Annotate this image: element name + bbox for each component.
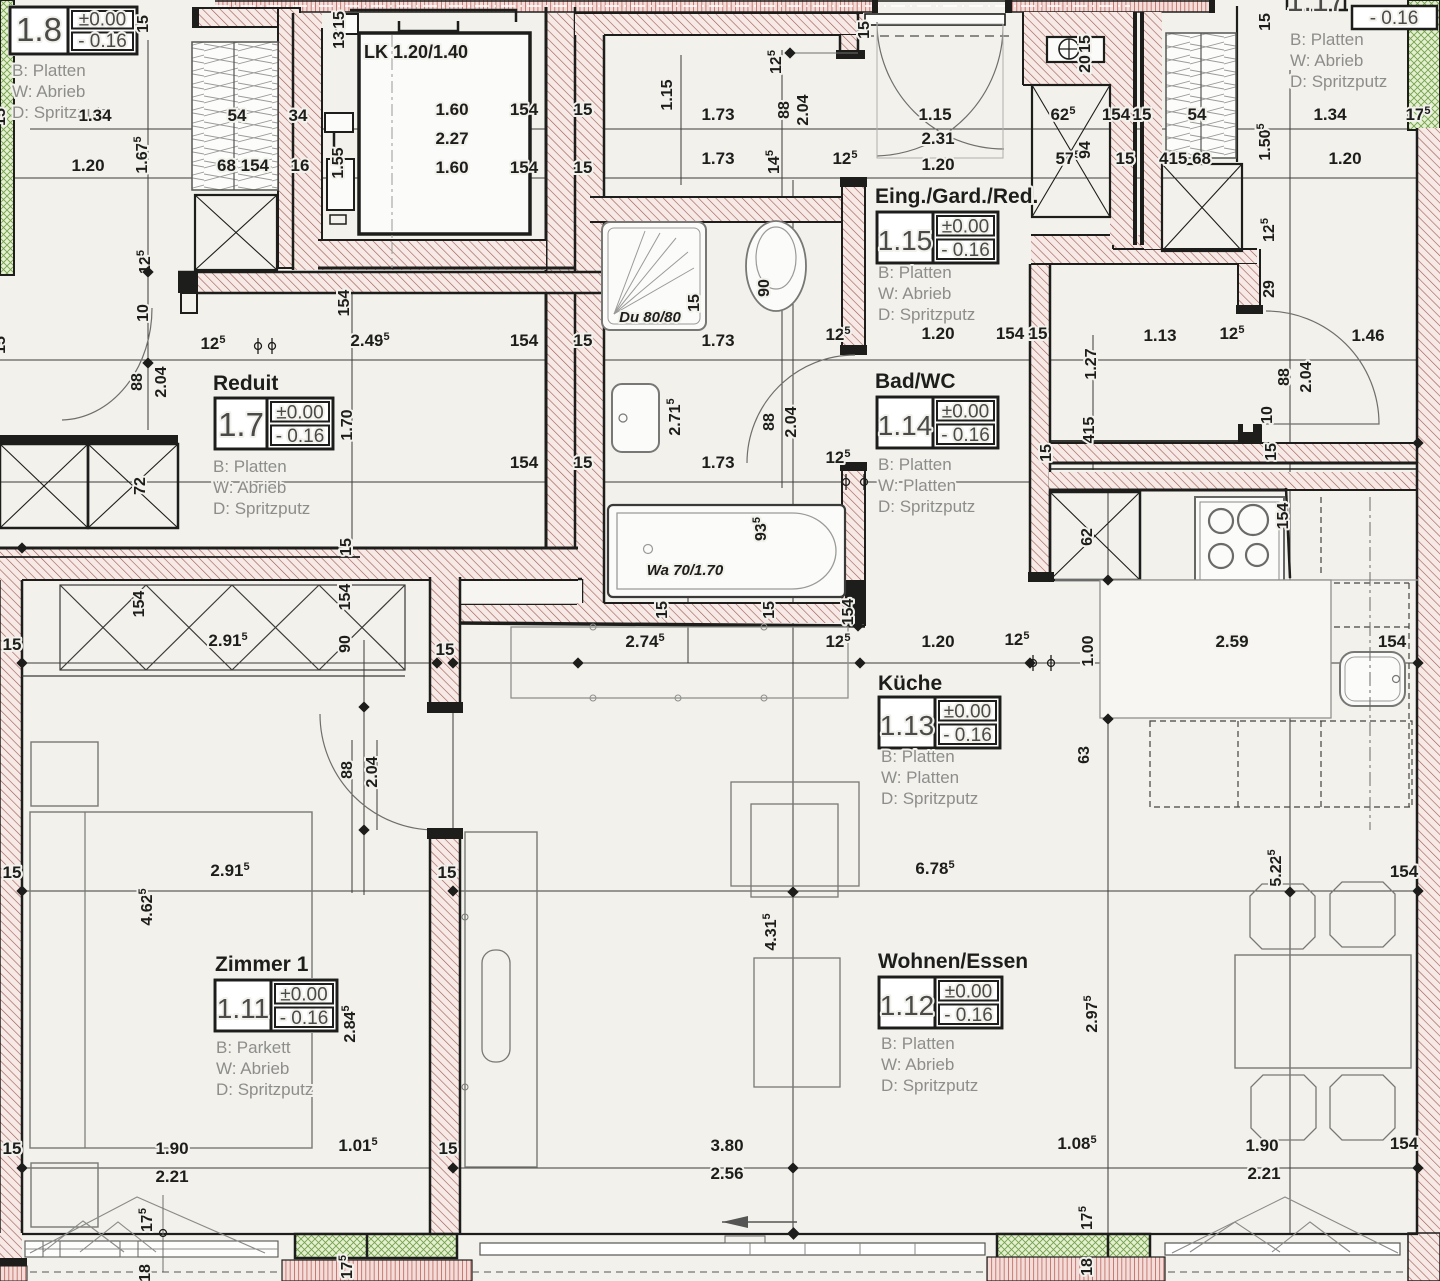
entrance door threshold <box>865 14 1005 25</box>
kitchen door jamb <box>1238 424 1262 442</box>
svg-text:94: 94 <box>1077 141 1094 159</box>
svg-text:15: 15 <box>438 863 457 882</box>
svg-text:154: 154 <box>510 453 539 472</box>
wall stub at entrance <box>840 35 858 51</box>
svg-text:±0.00: ±0.00 <box>280 985 327 1006</box>
svg-text:1.15: 1.15 <box>878 225 933 256</box>
svg-text:1.73: 1.73 <box>701 149 734 168</box>
closet 72 in Reduit hall <box>0 435 178 444</box>
svg-text:154: 154 <box>337 584 354 611</box>
garderobe sideboard in corridor <box>511 627 848 698</box>
svg-text:10: 10 <box>135 304 152 322</box>
apartment entry door arc (left wall) <box>62 308 152 420</box>
lift car <box>359 33 530 234</box>
svg-text:68 154: 68 154 <box>217 156 270 175</box>
svg-text:29: 29 <box>1261 280 1278 298</box>
Zimmer1/living wall lower piece <box>430 828 460 1233</box>
balcony dashed lines <box>30 1271 1405 1273</box>
wardrobe top right <box>1166 33 1236 158</box>
svg-text:1.13: 1.13 <box>880 710 935 741</box>
svg-text:1.12: 1.12 <box>880 990 935 1021</box>
svg-text:154: 154 <box>131 591 148 618</box>
svg-text:B: Platten: B: Platten <box>213 457 287 476</box>
svg-text:13: 13 <box>331 31 348 49</box>
svg-text:1.46: 1.46 <box>1351 326 1384 345</box>
svg-text:54: 54 <box>1188 105 1207 124</box>
svg-text:1.15: 1.15 <box>918 105 951 124</box>
svg-text:2.31: 2.31 <box>921 129 954 148</box>
svg-text:Du 80/80: Du 80/80 <box>619 309 681 326</box>
svg-text:1.90: 1.90 <box>1245 1136 1278 1155</box>
entrance door swing arcs <box>877 22 1004 149</box>
svg-text:15: 15 <box>856 21 873 39</box>
lift centre lines <box>391 35 393 268</box>
exterior wall left (green hatched strip) <box>0 0 14 275</box>
svg-text:1.20: 1.20 <box>921 632 954 651</box>
corridor wall below niche <box>457 605 577 623</box>
dim chain bottom left <box>162 1195 164 1272</box>
svg-text:D: Spritzputz: D: Spritzputz <box>881 1076 978 1095</box>
svg-text:B: Platten: B: Platten <box>878 455 952 474</box>
door jamb below cap <box>181 293 197 313</box>
svg-text:154: 154 <box>1390 862 1419 881</box>
svg-text:W: Abrieb: W: Abrieb <box>878 284 951 303</box>
svg-text:154: 154 <box>1378 632 1407 651</box>
svg-text:15: 15 <box>1257 13 1274 31</box>
balcony wall hatch below left <box>282 1260 472 1281</box>
svg-text:154: 154 <box>1390 1134 1419 1153</box>
svg-text:154: 154 <box>840 599 857 626</box>
lift machine boxes <box>325 113 353 132</box>
lift door sill <box>350 10 516 22</box>
entrance mat outline <box>877 24 1003 158</box>
exterior wall left lower <box>0 548 22 1233</box>
svg-text:Eing./Gard./Red.: Eing./Gard./Red. <box>875 185 1038 208</box>
svg-text:Wa 70/1.70: Wa 70/1.70 <box>647 562 724 579</box>
svg-text:1.13: 1.13 <box>1143 326 1176 345</box>
kitchen sink <box>1340 652 1405 706</box>
svg-text:88: 88 <box>1276 368 1293 386</box>
svg-text:15: 15 <box>3 635 22 654</box>
svg-text:15: 15 <box>686 294 703 312</box>
tall cupboard X at entrance <box>1032 85 1110 217</box>
washbasin <box>612 384 659 452</box>
svg-text:B: Parkett: B: Parkett <box>216 1038 291 1057</box>
svg-text:154: 154 <box>510 158 539 177</box>
svg-text:15: 15 <box>574 100 593 119</box>
svg-text:154: 154 <box>1102 105 1131 124</box>
svg-text:- 0.16: - 0.16 <box>943 725 992 746</box>
Zimmer1 door arc <box>320 714 435 830</box>
svg-text:2.21: 2.21 <box>155 1167 188 1186</box>
bath right wall piece <box>842 462 865 623</box>
svg-text:15: 15 <box>338 538 355 556</box>
svg-text:Reduit: Reduit <box>213 372 278 395</box>
svg-text:15: 15 <box>0 108 9 126</box>
svg-text:154: 154 <box>336 290 353 317</box>
svg-text:15: 15 <box>574 158 593 177</box>
lift shaft bottom wall <box>318 240 546 270</box>
svg-text:W: Abrieb: W: Abrieb <box>1290 51 1363 70</box>
svg-text:1.60: 1.60 <box>435 100 468 119</box>
svg-text:W: Platten: W: Platten <box>878 476 956 495</box>
dimension tick circles <box>255 338 1055 671</box>
svg-text:D: Spritzputz: D: Spritzputz <box>878 305 975 324</box>
main corridor wall (hall / Reduit divider) <box>178 272 604 293</box>
svg-text:±0.00: ±0.00 <box>944 702 991 723</box>
svg-text:B: Platten: B: Platten <box>1290 30 1364 49</box>
lift shaft LK outer wall left <box>293 13 322 270</box>
svg-text:1.73: 1.73 <box>701 331 734 350</box>
room 1.17 label (cut at top) <box>1352 6 1437 29</box>
svg-text:15: 15 <box>574 331 593 350</box>
svg-text:D: Spritzputz: D: Spritzputz <box>213 499 310 518</box>
wall top-left horizontal <box>197 8 278 27</box>
dim line at entrance stub <box>790 52 858 54</box>
nightstand lower <box>31 1163 98 1227</box>
svg-text:Zimmer 1: Zimmer 1 <box>215 953 309 976</box>
Bad/WC door arc <box>747 355 855 463</box>
svg-text:±0.00: ±0.00 <box>79 10 126 31</box>
svg-text:90: 90 <box>337 635 354 653</box>
svg-text:154: 154 <box>996 324 1025 343</box>
wall band below entrance (corridor north-east) <box>1031 235 1161 264</box>
svg-text:1.20: 1.20 <box>921 155 954 174</box>
double party wall top-right <box>1110 12 1133 245</box>
dining chairs <box>1250 884 1315 949</box>
svg-text:B: Platten: B: Platten <box>12 61 86 80</box>
svg-text:1.34: 1.34 <box>1313 105 1347 124</box>
wardrobe left of shaft <box>192 42 278 190</box>
cupboard X top right <box>1162 164 1242 251</box>
svg-text:15: 15 <box>135 15 152 33</box>
kitchen door arc 1.46 <box>1266 311 1379 424</box>
svg-text:15: 15 <box>331 11 348 29</box>
svg-text:- 0.16: - 0.16 <box>941 425 990 446</box>
svg-text:154: 154 <box>510 331 539 350</box>
svg-text:- 0.16: - 0.16 <box>941 240 990 261</box>
svg-text:B: Platten: B: Platten <box>878 263 952 282</box>
svg-text:±0.00: ±0.00 <box>942 402 989 423</box>
svg-text:B: Platten: B: Platten <box>881 1034 955 1053</box>
corridor floor edge line <box>1050 440 1238 442</box>
svg-text:1.55: 1.55 <box>330 147 347 178</box>
armchair with table Wohnen <box>731 782 859 886</box>
svg-text:90: 90 <box>756 279 773 297</box>
Reduit bottom wall <box>0 548 578 580</box>
svg-text:2.04: 2.04 <box>153 366 170 397</box>
svg-text:Küche: Küche <box>878 672 942 695</box>
svg-text:W: Abrieb: W: Abrieb <box>216 1059 289 1078</box>
direction arrow <box>722 1221 797 1223</box>
svg-text:15: 15 <box>1038 444 1055 462</box>
svg-text:1.8: 1.8 <box>16 11 62 48</box>
exterior wall right <box>1417 128 1440 1233</box>
living room window <box>480 1243 985 1255</box>
cupboard with X below wardrobe <box>195 195 277 270</box>
svg-text:2.04: 2.04 <box>783 406 800 437</box>
sideboard in living room <box>465 832 537 1167</box>
dining table <box>1235 955 1411 1068</box>
dimension nodes <box>16 266 1423 1173</box>
green window pillar left <box>295 1234 457 1258</box>
svg-text:±0.00: ±0.00 <box>945 982 992 1003</box>
top dense party wall band <box>215 0 875 12</box>
svg-text:18: 18 <box>1079 1258 1096 1276</box>
svg-text:415 68: 415 68 <box>1159 149 1211 168</box>
svg-text:1.14: 1.14 <box>878 410 933 441</box>
svg-text:W: Abrieb: W: Abrieb <box>12 82 85 101</box>
svg-text:W: Abrieb: W: Abrieb <box>881 1055 954 1074</box>
svg-text:- 0.16: - 0.16 <box>280 1008 329 1029</box>
svg-text:1.27: 1.27 <box>1083 348 1100 379</box>
svg-text:±0.00: ±0.00 <box>276 403 323 424</box>
svg-text:15: 15 <box>761 601 778 619</box>
svg-text:15: 15 <box>3 1139 22 1158</box>
svg-text:3.80: 3.80 <box>710 1136 743 1155</box>
window Zimmer1 <box>25 1241 278 1257</box>
svg-text:1.34: 1.34 <box>78 106 112 125</box>
bed Zimmer1 <box>30 812 312 1148</box>
svg-text:D: Spritzputz: D: Spritzputz <box>216 1080 313 1099</box>
window opening triangles left <box>43 1221 124 1252</box>
svg-text:63: 63 <box>1076 746 1093 764</box>
svg-text:2.27: 2.27 <box>435 129 468 148</box>
svg-text:1.17: 1.17 <box>1287 0 1345 18</box>
svg-text:72: 72 <box>132 477 149 495</box>
nightstand upper <box>31 742 98 806</box>
svg-text:1.60: 1.60 <box>435 158 468 177</box>
svg-text:Bad/WC: Bad/WC <box>875 370 956 393</box>
svg-text:- 0.16: - 0.16 <box>944 1005 993 1026</box>
corridor right wall (to kitchen) <box>1030 264 1050 572</box>
svg-text:15: 15 <box>1133 105 1152 124</box>
svg-text:88: 88 <box>761 413 778 431</box>
svg-text:LK 1.20/1.40: LK 1.20/1.40 <box>364 42 468 62</box>
toilet <box>746 221 806 311</box>
vent box <box>1047 37 1104 62</box>
svg-text:D: Spritzputz: D: Spritzputz <box>1290 72 1387 91</box>
svg-text:1.15: 1.15 <box>659 79 676 110</box>
svg-text:W: Platten: W: Platten <box>881 768 959 787</box>
svg-text:2.04: 2.04 <box>364 756 381 787</box>
svg-text:1.73: 1.73 <box>701 105 734 124</box>
Zimmer1 wardrobe row <box>22 585 405 676</box>
room 1.8 label <box>8 5 139 56</box>
svg-text:- 0.16: - 0.16 <box>1370 8 1419 29</box>
balcony wall hatch below right <box>987 1257 1165 1281</box>
exterior wall right (green hatched top) <box>1408 0 1440 130</box>
svg-text:15: 15 <box>439 1139 458 1158</box>
Zimmer1/corridor wall upper piece <box>430 577 460 712</box>
svg-text:1.70: 1.70 <box>339 409 356 440</box>
svg-text:10: 10 <box>1259 406 1276 424</box>
svg-text:15: 15 <box>1263 443 1280 461</box>
facade line <box>22 1233 1418 1235</box>
svg-text:15: 15 <box>574 453 593 472</box>
svg-text:1.11: 1.11 <box>217 993 269 1024</box>
svg-text:16: 16 <box>291 156 310 175</box>
svg-text:- 0.16: - 0.16 <box>78 31 127 52</box>
svg-text:54: 54 <box>228 106 247 125</box>
entrance canopy dashed line <box>865 35 1012 37</box>
svg-text:B: Platten: B: Platten <box>881 747 955 766</box>
svg-text:18: 18 <box>137 1264 154 1281</box>
svg-text:154: 154 <box>1275 503 1292 530</box>
window right <box>1165 1243 1400 1255</box>
shower Du 80/80 <box>602 222 706 330</box>
svg-text:154: 154 <box>510 100 539 119</box>
svg-text:15: 15 <box>436 640 455 659</box>
svg-text:415: 415 <box>1081 417 1098 444</box>
svg-text:88: 88 <box>129 373 146 391</box>
svg-text:- 0.16: - 0.16 <box>276 426 325 447</box>
svg-text:88: 88 <box>776 101 793 119</box>
svg-text:Wohnen/Essen: Wohnen/Essen <box>878 950 1028 973</box>
hob <box>1195 497 1284 585</box>
svg-text:D: Spritzputz: D: Spritzputz <box>878 497 975 516</box>
kitchen cupboard X <box>1050 492 1140 580</box>
bathroom top wall <box>590 197 865 222</box>
svg-text:2.04: 2.04 <box>795 94 812 125</box>
kitchen top wall band B <box>1049 472 1418 490</box>
kitchen top wall band A <box>1049 443 1440 463</box>
svg-text:1.20: 1.20 <box>921 324 954 343</box>
door niche in double wall <box>457 579 582 605</box>
svg-text:15: 15 <box>1077 35 1094 53</box>
kitchen upper cabinets dashed <box>1150 497 1412 807</box>
shaft block with vent <box>1023 12 1110 85</box>
svg-text:1.00: 1.00 <box>1080 635 1097 666</box>
svg-text:1.20: 1.20 <box>71 156 104 175</box>
svg-text:2.21: 2.21 <box>1247 1164 1280 1183</box>
svg-text:15: 15 <box>1029 324 1048 343</box>
armchair 2 Wohnen <box>754 958 840 1087</box>
wall between WC anteroom and corridor <box>842 187 865 345</box>
svg-text:15: 15 <box>654 601 671 619</box>
kitchen counter edge <box>1055 579 1418 581</box>
svg-text:15: 15 <box>3 863 22 882</box>
window opening triangles right <box>1190 1222 1280 1252</box>
separating wall right edge <box>1236 6 1238 162</box>
top wall of WC anteroom <box>575 13 863 35</box>
svg-text:2.04: 2.04 <box>1298 361 1315 392</box>
svg-text:±0.00: ±0.00 <box>942 217 989 238</box>
wall end cap left <box>178 272 198 293</box>
svg-text:2.59: 2.59 <box>1215 632 1248 651</box>
green window pillar right <box>997 1234 1150 1258</box>
svg-text:2.56: 2.56 <box>710 1164 743 1183</box>
wall vertical left of shaft <box>278 8 300 268</box>
exterior wall bottom-left corner <box>0 1233 22 1258</box>
svg-text:15: 15 <box>1116 149 1135 168</box>
bathroom bottom wall <box>577 603 862 623</box>
kitchen island <box>1100 580 1331 718</box>
svg-text:20: 20 <box>1077 55 1094 73</box>
svg-text:1.7: 1.7 <box>218 406 264 443</box>
svg-text:88: 88 <box>339 761 356 779</box>
L wall at kitchen door <box>1238 264 1260 306</box>
svg-text:15: 15 <box>0 336 9 354</box>
svg-text:1.20: 1.20 <box>1328 149 1361 168</box>
svg-text:D: Spritzputz: D: Spritzputz <box>881 789 978 808</box>
svg-text:1.90: 1.90 <box>155 1139 188 1158</box>
lift shaft wall right (double wall to bath) <box>546 13 604 579</box>
svg-text:34: 34 <box>289 106 308 125</box>
exterior wall bottom-right corner <box>1408 1233 1440 1281</box>
party wall end post <box>872 0 878 13</box>
svg-text:W: Abrieb: W: Abrieb <box>213 478 286 497</box>
svg-text:1.73: 1.73 <box>701 453 734 472</box>
bath Wa 70/1.70 <box>608 505 845 597</box>
svg-text:62: 62 <box>1079 528 1096 546</box>
